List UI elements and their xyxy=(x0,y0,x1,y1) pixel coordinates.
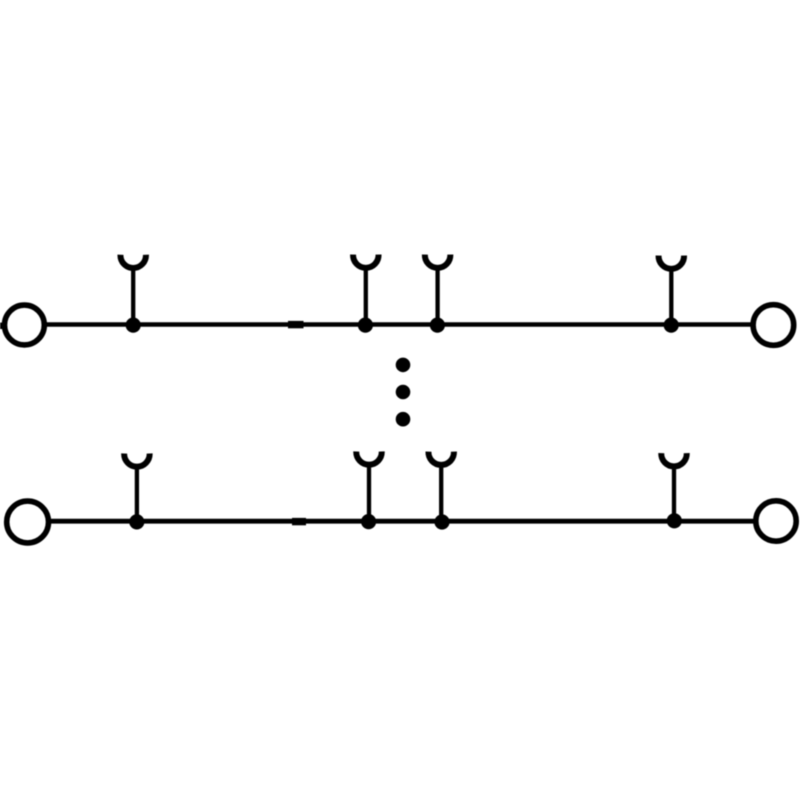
wire stub at left edge of top rail xyxy=(0,323,6,329)
junction dot 4 on top rail xyxy=(664,318,679,333)
tap 2 on bottom rail: socket fork symbol xyxy=(356,451,382,521)
junction dot 2 on bottom rail xyxy=(361,514,376,529)
bottom bus rail wire xyxy=(49,519,755,524)
top bus rail wire xyxy=(45,322,752,327)
wire overlap splice mark on bottom rail xyxy=(292,518,306,525)
continuation ellipsis dot 3 xyxy=(396,412,411,427)
terminal circle top-left xyxy=(5,305,45,345)
tap 3 on bottom rail: socket fork symbol xyxy=(428,452,454,521)
tap 1 on top rail: socket fork symbol xyxy=(120,255,146,325)
junction dot 1 on top rail xyxy=(126,318,141,333)
terminal circle bottom-right xyxy=(756,501,796,541)
terminal circle top-right xyxy=(753,305,794,346)
tap 4 on top rail: socket fork symbol xyxy=(659,256,685,325)
tap 1 on bottom rail: socket fork symbol xyxy=(124,453,150,521)
junction dot 1 on bottom rail xyxy=(129,514,144,529)
junction dot 3 on top rail xyxy=(430,318,445,333)
terminal circle bottom-left xyxy=(7,501,49,543)
junction dot 4 on bottom rail xyxy=(667,513,682,528)
continuation ellipsis dot 2 xyxy=(396,385,411,400)
junction dot 2 on top rail xyxy=(358,318,373,333)
junction dot 3 on bottom rail xyxy=(434,514,449,529)
tap 4 on bottom rail: socket fork symbol xyxy=(661,453,687,521)
continuation ellipsis dot 1 xyxy=(396,358,411,373)
tap 2 on top rail: socket fork symbol xyxy=(353,255,379,325)
wire overlap splice mark on top rail xyxy=(288,321,304,328)
tap 3 on top rail: socket fork symbol xyxy=(425,255,451,325)
